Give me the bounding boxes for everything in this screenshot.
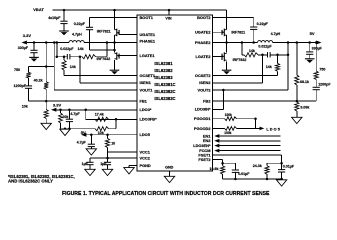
resistor R18 19.6k bbox=[221, 166, 225, 175]
junction LDO3FB/R9 bbox=[115, 118, 118, 121]
svg-text:PHASE1: PHASE1 bbox=[140, 39, 156, 44]
wire FSET2 cap tap bbox=[223, 162, 236, 164]
svg-text:4.7µH: 4.7µH bbox=[72, 32, 82, 36]
junction R19/gnd row bbox=[266, 178, 269, 181]
resistor R7 20k bbox=[59, 113, 63, 123]
resistor R14 9.09k bbox=[295, 102, 299, 111]
wire CBOOT1 to phase bbox=[89, 30, 91, 50]
svg-text:40.2k: 40.2k bbox=[34, 78, 43, 82]
wire Q1 source to phase bbox=[114, 35, 116, 52]
wire DCR1 row a bbox=[57, 56, 68, 58]
wire Q3 source to phase bbox=[226, 35, 228, 52]
arrow 3.3V output bbox=[22, 41, 27, 45]
capacitor CBOOT1 0.22uF bbox=[86, 27, 93, 29]
wire PGND drop bbox=[128, 166, 130, 168]
junction DCR2/OCSET2 bbox=[276, 54, 279, 57]
capacitor C4 4.7uF bbox=[66, 119, 73, 121]
svg-text:1200pF: 1200pF bbox=[318, 82, 331, 86]
wire R6 lower lead bbox=[45, 119, 47, 124]
junction LDO5/R10 bbox=[106, 133, 109, 136]
arrow LDO3 output bbox=[51, 108, 56, 112]
capacitor C9 lower lead bbox=[309, 54, 311, 59]
capacitor C11 lower lead bbox=[234, 172, 236, 179]
wire DCR1 row c bbox=[96, 56, 107, 58]
junction LDO3/R8 riser bbox=[84, 109, 87, 112]
svg-text:1200pF: 1200pF bbox=[14, 84, 27, 88]
resistor R4 14k bbox=[82, 55, 96, 59]
wire BOOT2 bbox=[213, 17, 254, 19]
svg-text:14k: 14k bbox=[70, 65, 76, 69]
wire R10 to VCC1 bbox=[107, 148, 109, 152]
svg-text:19.6k: 19.6k bbox=[210, 167, 219, 171]
resistor R17 100k bbox=[225, 127, 237, 131]
wire PGOOD2 pin bbox=[213, 127, 225, 129]
wire LGATE1 bbox=[119, 55, 137, 57]
inductor L1 4.7uH bbox=[69, 41, 84, 43]
wire R14 lower lead bbox=[296, 111, 298, 117]
resistor R12 14k bbox=[275, 63, 279, 71]
svg-text:LGATE2: LGATE2 bbox=[195, 54, 211, 59]
junction C11/gnd row bbox=[234, 178, 237, 181]
svg-text:4.7µF: 4.7µF bbox=[70, 112, 80, 116]
capacitor C2 1200pF bbox=[25, 86, 32, 88]
wire R6 upper lead bbox=[45, 101, 47, 109]
junction PGOOD1/PGOOD2 bbox=[254, 117, 257, 120]
junction vout1/comp riser bbox=[45, 41, 48, 44]
svg-text:IRF7832: IRF7832 bbox=[97, 57, 111, 61]
wire LDO5 row bbox=[86, 134, 137, 136]
svg-text:4.7µH: 4.7µH bbox=[271, 32, 281, 36]
wire PHASE2 bbox=[213, 42, 227, 44]
ground (C1) bbox=[29, 57, 39, 61]
junction vout1/C330 bbox=[33, 41, 36, 44]
wire Q4 source to gnd bbox=[226, 61, 228, 70]
resistor R16 100k bbox=[225, 117, 237, 121]
svg-text:0.22µF: 0.22µF bbox=[74, 22, 86, 26]
ground (R6) bbox=[41, 123, 51, 129]
arrow LDO5 output bbox=[81, 133, 86, 137]
wire OCSET1 stub bbox=[63, 57, 65, 61]
svg-text:ISL62383: ISL62383 bbox=[154, 75, 173, 80]
capacitor C3 0.022uF bbox=[67, 54, 70, 59]
capacitor C1 lower lead bbox=[33, 53, 35, 58]
svg-text:330µF: 330µF bbox=[18, 46, 29, 50]
wire UGATE1 bbox=[119, 33, 137, 35]
transistor Q1 IRF7821 bbox=[115, 29, 120, 37]
wire LDO3FB row bbox=[86, 118, 137, 120]
svg-text:PGOOD1: PGOOD1 bbox=[194, 116, 211, 121]
wire Q2 source to gnd bbox=[114, 60, 116, 70]
capacitor C6 upper lead bbox=[89, 158, 91, 162]
wire BOOT1 bbox=[90, 17, 138, 19]
junction DCR1 midpoint bbox=[79, 55, 82, 58]
resistor R19 24.3k bbox=[265, 166, 269, 175]
wire comp2 lower lead bbox=[315, 90, 317, 101]
arrow input FCCM bbox=[214, 149, 219, 153]
wire VBAT rail bbox=[53, 9, 227, 11]
wire BOOT2 drop bbox=[253, 18, 255, 28]
capacitor C9 upper lead bbox=[309, 43, 311, 52]
junction phase2/dcr riser bbox=[241, 41, 244, 44]
capacitor C-IN 4x10uF bbox=[60, 21, 67, 23]
wire comp to FB1 bbox=[28, 88, 30, 101]
wire DCR1 row b bbox=[70, 56, 82, 58]
ground (PGND) bbox=[124, 168, 134, 174]
wire DCR2 riser bbox=[241, 43, 243, 55]
junction DCR2 midpoint bbox=[261, 54, 264, 57]
svg-text:VCC1: VCC1 bbox=[140, 149, 151, 154]
wire FSET2 drop bbox=[222, 160, 224, 166]
wire PGOOD2 to arrow bbox=[237, 127, 260, 129]
svg-text:10: 10 bbox=[111, 141, 115, 145]
wire R9 riser bbox=[115, 119, 117, 128]
wire VCC2 row bbox=[90, 157, 137, 159]
resistor R15 750 bbox=[314, 71, 318, 80]
svg-text:PHASE2: PHASE2 bbox=[195, 40, 211, 45]
wire R7 upper stub bbox=[60, 110, 62, 113]
wire OCSET1 pin bbox=[64, 75, 137, 77]
svg-text:VIN: VIN bbox=[165, 16, 171, 20]
wire phase2 row bbox=[227, 42, 258, 44]
wire R7 lower stub bbox=[60, 123, 62, 129]
ground (C9) bbox=[305, 59, 315, 63]
wire VCC1 row bbox=[108, 151, 138, 153]
svg-text:PGND: PGND bbox=[140, 163, 151, 168]
capacitor C9 330uF bbox=[306, 52, 313, 54]
junction phase2/boot2 bbox=[252, 41, 255, 44]
capacitor C12 lower lead bbox=[281, 172, 283, 179]
wire PHASE1 bbox=[115, 42, 138, 44]
transistor Q3 IRF7821 bbox=[222, 29, 227, 37]
ground (LDO3 network) bbox=[60, 129, 70, 135]
capacitor C-IN lower lead bbox=[63, 24, 65, 31]
ground (Q2 source) bbox=[110, 70, 120, 74]
svg-text:IRF7821: IRF7821 bbox=[231, 30, 245, 34]
svg-text:VOUT1: VOUT1 bbox=[140, 87, 154, 92]
wire R19 upper stub bbox=[266, 163, 268, 166]
wire OCSET2 pin bbox=[213, 75, 278, 77]
wire R3 lower lead bbox=[45, 89, 47, 101]
wire R15 upper lead bbox=[315, 43, 317, 72]
wire R12 to OCSET2 bbox=[277, 71, 279, 75]
capacitor C1 330uF bbox=[30, 50, 37, 52]
capacitor C7 upper lead bbox=[107, 152, 109, 162]
transistor Q4 IRF7832 bbox=[222, 52, 227, 61]
inductor L2 4.7uH bbox=[258, 41, 273, 43]
junction phase/boot1 bbox=[113, 49, 116, 52]
capacitor C5 lower lead bbox=[90, 147, 92, 149]
svg-text:BOOT2: BOOT2 bbox=[197, 15, 211, 20]
resistor R8 17.4k bbox=[95, 117, 109, 121]
wire comp2 to FB2 bbox=[297, 100, 316, 102]
wire R18 lower lead bbox=[222, 174, 224, 179]
junction VBAT / VIN bbox=[168, 9, 171, 12]
junction VCC2/C7 crossing bbox=[106, 157, 109, 160]
capacitor C4 upper lead bbox=[68, 110, 70, 119]
wire BOOT1 drop bbox=[89, 18, 91, 28]
svg-text:LDO5: LDO5 bbox=[266, 128, 281, 132]
svg-text:0.01µF: 0.01µF bbox=[283, 165, 295, 169]
svg-text:330µF: 330µF bbox=[312, 46, 323, 50]
svg-text:LDO5: LDO5 bbox=[140, 132, 151, 137]
wire comp tie bbox=[29, 66, 55, 68]
wire FSET1 resistor tap bbox=[267, 162, 282, 164]
svg-text:LDO3IN*: LDO3IN* bbox=[195, 107, 211, 112]
junction FSET2 node bbox=[221, 162, 224, 165]
svg-text:5V: 5V bbox=[310, 31, 315, 36]
svg-text:750: 750 bbox=[319, 67, 325, 71]
ground (C7) bbox=[102, 169, 112, 175]
svg-text:VOUT2: VOUT2 bbox=[198, 87, 212, 92]
wire R10 upper stub bbox=[107, 135, 109, 139]
resistor R2 750 bbox=[26, 72, 30, 78]
wire UGATE2 bbox=[213, 31, 223, 33]
wire VOUT2 riser bbox=[287, 43, 289, 91]
junction comp tie bbox=[45, 65, 48, 68]
junction VBAT / Q1 drain bbox=[113, 9, 116, 12]
junction vout1/sense bbox=[53, 41, 56, 44]
svg-text:LGATE1: LGATE1 bbox=[140, 53, 156, 58]
svg-text:GND: GND bbox=[165, 165, 174, 169]
svg-text:10k: 10k bbox=[22, 105, 28, 109]
capacitor C-IN lead bbox=[63, 10, 65, 21]
wire DCR2 row a bbox=[242, 54, 244, 56]
svg-text:4.7µF: 4.7µF bbox=[77, 141, 87, 145]
wire CBOOT1 return bbox=[90, 49, 115, 51]
wire comp2 mid bbox=[315, 80, 317, 88]
svg-text:0.022µF: 0.022µF bbox=[60, 47, 74, 51]
capacitor C12 0.01uF bbox=[278, 170, 285, 172]
wire FSET2 pin bbox=[213, 159, 223, 161]
junction gnd row/arrow bbox=[64, 127, 67, 130]
wire R9 to riser bbox=[109, 128, 117, 130]
wire R19 lower lead bbox=[266, 174, 268, 179]
resistor R3 40.2k bbox=[44, 82, 48, 89]
wire FB2 pin bbox=[213, 100, 297, 102]
svg-text:14k: 14k bbox=[78, 47, 84, 51]
wire vout2 rail bbox=[273, 42, 317, 44]
capacitor CBOOT2 0.22uF bbox=[250, 27, 257, 29]
junction LDO3/R7 bbox=[59, 109, 62, 112]
junction gnd row/arrow fset bbox=[280, 178, 283, 181]
resistor R10 10 bbox=[105, 138, 109, 147]
wire ISEN2 riser bbox=[262, 55, 264, 83]
ground (R14) bbox=[292, 117, 302, 123]
wire LDO3IN riser bbox=[222, 90, 224, 109]
ground (input cap) bbox=[59, 31, 69, 35]
svg-text:IRF7821: IRF7821 bbox=[97, 30, 111, 34]
svg-text:0.022µF: 0.022µF bbox=[258, 44, 272, 48]
wire LDO3 row bbox=[56, 109, 137, 111]
wire FCCM signal bbox=[219, 150, 280, 152]
junction FB1/R6 bbox=[45, 100, 48, 103]
svg-text:FIGURE 1. TYPICAL APPLICATION: FIGURE 1. TYPICAL APPLICATION CIRCUIT WI… bbox=[62, 191, 270, 197]
svg-text:100k: 100k bbox=[225, 113, 232, 117]
svg-text:FSET2: FSET2 bbox=[198, 157, 211, 162]
svg-text:LDO3*: LDO3* bbox=[140, 107, 152, 112]
svg-text:LDO3FB*: LDO3FB* bbox=[140, 117, 158, 122]
wire DCR1 phase riser bbox=[106, 43, 108, 57]
arrow input LDO3EN* bbox=[214, 144, 219, 148]
junction rail/C9 bbox=[308, 41, 311, 44]
junction rail/vout2 riser bbox=[287, 41, 290, 44]
junction C4/gnd wire bbox=[68, 127, 71, 130]
wire VOUT1 rail left bbox=[27, 42, 69, 44]
svg-text:17.4k: 17.4k bbox=[95, 112, 104, 116]
arrow input EN1 bbox=[214, 134, 219, 138]
wire PGOOD1 to node bbox=[237, 118, 256, 120]
wire EN1 signal bbox=[219, 135, 280, 137]
svg-text:4x10µF: 4x10µF bbox=[48, 16, 61, 20]
junction phase1 column bbox=[113, 41, 116, 44]
wire CBOOT2 to phase bbox=[253, 29, 255, 42]
wire LDO3EN* signal bbox=[219, 145, 280, 147]
svg-text:0.01µF: 0.01µF bbox=[238, 172, 250, 176]
ground (FSET networks) bbox=[276, 180, 286, 186]
resistor R9 10k bbox=[95, 127, 109, 131]
junction DCR1/phase bbox=[106, 41, 109, 44]
wire R13 lower lead bbox=[296, 85, 298, 101]
junction rail/R13 bbox=[296, 41, 299, 44]
svg-text:AND ISL62382C ONLY: AND ISL62382C ONLY bbox=[8, 178, 53, 183]
capacitor C5 4.7uF bbox=[88, 144, 95, 146]
junction DCR1/OCSET1 bbox=[63, 55, 66, 58]
junction FB2 node bbox=[296, 100, 299, 103]
wire FB1 row bbox=[29, 100, 138, 102]
svg-text:ISL62381: ISL62381 bbox=[154, 61, 173, 66]
wire comp riser bbox=[45, 43, 47, 67]
capacitor C7 lower lead bbox=[107, 165, 109, 170]
svg-text:ISEN2: ISEN2 bbox=[199, 80, 211, 85]
svg-text:ISL62382: ISL62382 bbox=[154, 68, 173, 73]
svg-text:FB2: FB2 bbox=[203, 99, 211, 104]
wire Q3 drain column bbox=[226, 10, 228, 30]
wire DCR2 row b bbox=[258, 54, 268, 56]
svg-text:IRF7832: IRF7832 bbox=[233, 58, 247, 62]
wire ISEN1 riser bbox=[79, 57, 81, 83]
wire EN2 signal bbox=[219, 140, 280, 142]
wire VOUT1 sense riser bbox=[53, 43, 55, 91]
svg-text:ISL62383C: ISL62383C bbox=[154, 96, 175, 101]
junction LDO3/C4 bbox=[68, 109, 71, 112]
ground (Q4 source) bbox=[222, 70, 232, 74]
wire ISEN2 pin bbox=[213, 82, 263, 84]
ground (C5) bbox=[86, 149, 96, 155]
wire VOUT1 pin bbox=[54, 89, 137, 91]
junction phase2 column bbox=[225, 41, 228, 44]
junction FSET1 node bbox=[280, 162, 283, 165]
capacitor C6 1uF bbox=[86, 162, 93, 164]
svg-text:0.22µF: 0.22µF bbox=[257, 22, 269, 26]
wire comp mid bbox=[28, 78, 30, 86]
svg-text:14k: 14k bbox=[266, 65, 272, 69]
capacitor C1 330uF lead bbox=[33, 43, 35, 51]
wire R13 upper lead bbox=[296, 43, 298, 76]
wire R8 riser bbox=[85, 110, 87, 120]
capacitor C8 0.022uF bbox=[268, 52, 271, 57]
resistor R5 14k bbox=[62, 60, 66, 70]
svg-text:VCC2: VCC2 bbox=[140, 155, 151, 160]
svg-text:100k: 100k bbox=[224, 131, 231, 135]
transistor Q2 IRF7832 bbox=[115, 52, 120, 60]
op-amp U1 ISL6238x controller IC body bbox=[137, 15, 213, 171]
capacitor C6 lower lead bbox=[89, 165, 91, 170]
junction DCR1 row left bbox=[56, 55, 59, 58]
wire R2 upper stub bbox=[28, 67, 30, 73]
capacitor C4 lower lead bbox=[68, 122, 70, 129]
wire Q1 drain column bbox=[114, 10, 116, 30]
wire gnd row LDO3 bbox=[61, 128, 96, 130]
wire ISEN1 pin bbox=[80, 82, 137, 84]
wire fset gnd row bbox=[223, 178, 282, 180]
svg-text:FB1: FB1 bbox=[140, 99, 148, 104]
junction vout1/dcr bbox=[56, 41, 59, 44]
wire LDO3IN pin bbox=[213, 108, 224, 110]
wire FSET1 drop bbox=[281, 155, 283, 170]
wire R14 upper stub bbox=[296, 100, 298, 103]
ground (C6) bbox=[85, 169, 95, 175]
svg-text:68.1k: 68.1k bbox=[300, 80, 309, 84]
wire OCSET2 stub bbox=[277, 55, 279, 64]
svg-text:ISEN1: ISEN1 bbox=[140, 80, 152, 85]
svg-text:750: 750 bbox=[14, 68, 20, 72]
capacitor C5 upper lead bbox=[90, 135, 92, 145]
arrow input EN2 bbox=[214, 139, 219, 143]
svg-text:24.3k: 24.3k bbox=[253, 164, 262, 168]
wire VOUT2 pin bbox=[213, 89, 289, 91]
svg-text:ISL62381C: ISL62381C bbox=[154, 82, 175, 87]
resistor R6 10k bbox=[44, 110, 48, 119]
arrow LDO5 pullup bbox=[260, 127, 265, 131]
wire PGOOD1 pin bbox=[213, 118, 225, 120]
wire FSET1 pin bbox=[213, 154, 282, 156]
svg-text:PGOOD2: PGOOD2 bbox=[194, 126, 211, 131]
svg-text:3.3V: 3.3V bbox=[53, 102, 62, 107]
junction DCR2/vout riser bbox=[287, 54, 290, 57]
resistor R11 14k bbox=[244, 53, 258, 57]
wire GND pin bbox=[169, 171, 171, 177]
junction rail/R15 bbox=[315, 41, 318, 44]
wire R3 upper lead bbox=[45, 67, 47, 82]
wire L1 to phase bbox=[84, 42, 114, 44]
svg-text:UGATE2: UGATE2 bbox=[195, 30, 211, 35]
wire pgood tie bbox=[255, 119, 257, 129]
wire DCR2 row c bbox=[270, 54, 288, 56]
wire VIN pin bbox=[168, 10, 170, 15]
ground (GND pin) bbox=[164, 176, 174, 182]
capacitor C11 upper lead bbox=[234, 163, 236, 170]
svg-text:9.09k: 9.09k bbox=[300, 105, 309, 109]
svg-text:ISL62382C: ISL62382C bbox=[154, 89, 175, 94]
svg-text:UGATE1: UGATE1 bbox=[140, 32, 156, 37]
arrow 5V output bbox=[316, 41, 321, 45]
wire PGND pin bbox=[129, 165, 137, 167]
wire R5 to OCSET1 bbox=[63, 70, 65, 75]
wire DCR1 riser bbox=[56, 43, 58, 57]
capacitor C7 1uF bbox=[104, 162, 111, 164]
capacitor C11 0.01uF bbox=[232, 170, 239, 172]
svg-text:BOOT1: BOOT1 bbox=[140, 15, 154, 20]
junction VBAT / input cap bbox=[63, 9, 66, 12]
junction VOUT2/LDO3IN bbox=[222, 89, 225, 92]
wire LGATE2 bbox=[213, 55, 223, 57]
capacitor C10 1200pF bbox=[313, 87, 320, 89]
junction LDO5/C5 bbox=[90, 133, 93, 136]
svg-text:OCSET1: OCSET1 bbox=[140, 73, 156, 78]
svg-text:VBAT: VBAT bbox=[33, 7, 44, 12]
resistor R13 68.1k bbox=[295, 75, 299, 85]
svg-text:OCSET2: OCSET2 bbox=[195, 73, 211, 78]
